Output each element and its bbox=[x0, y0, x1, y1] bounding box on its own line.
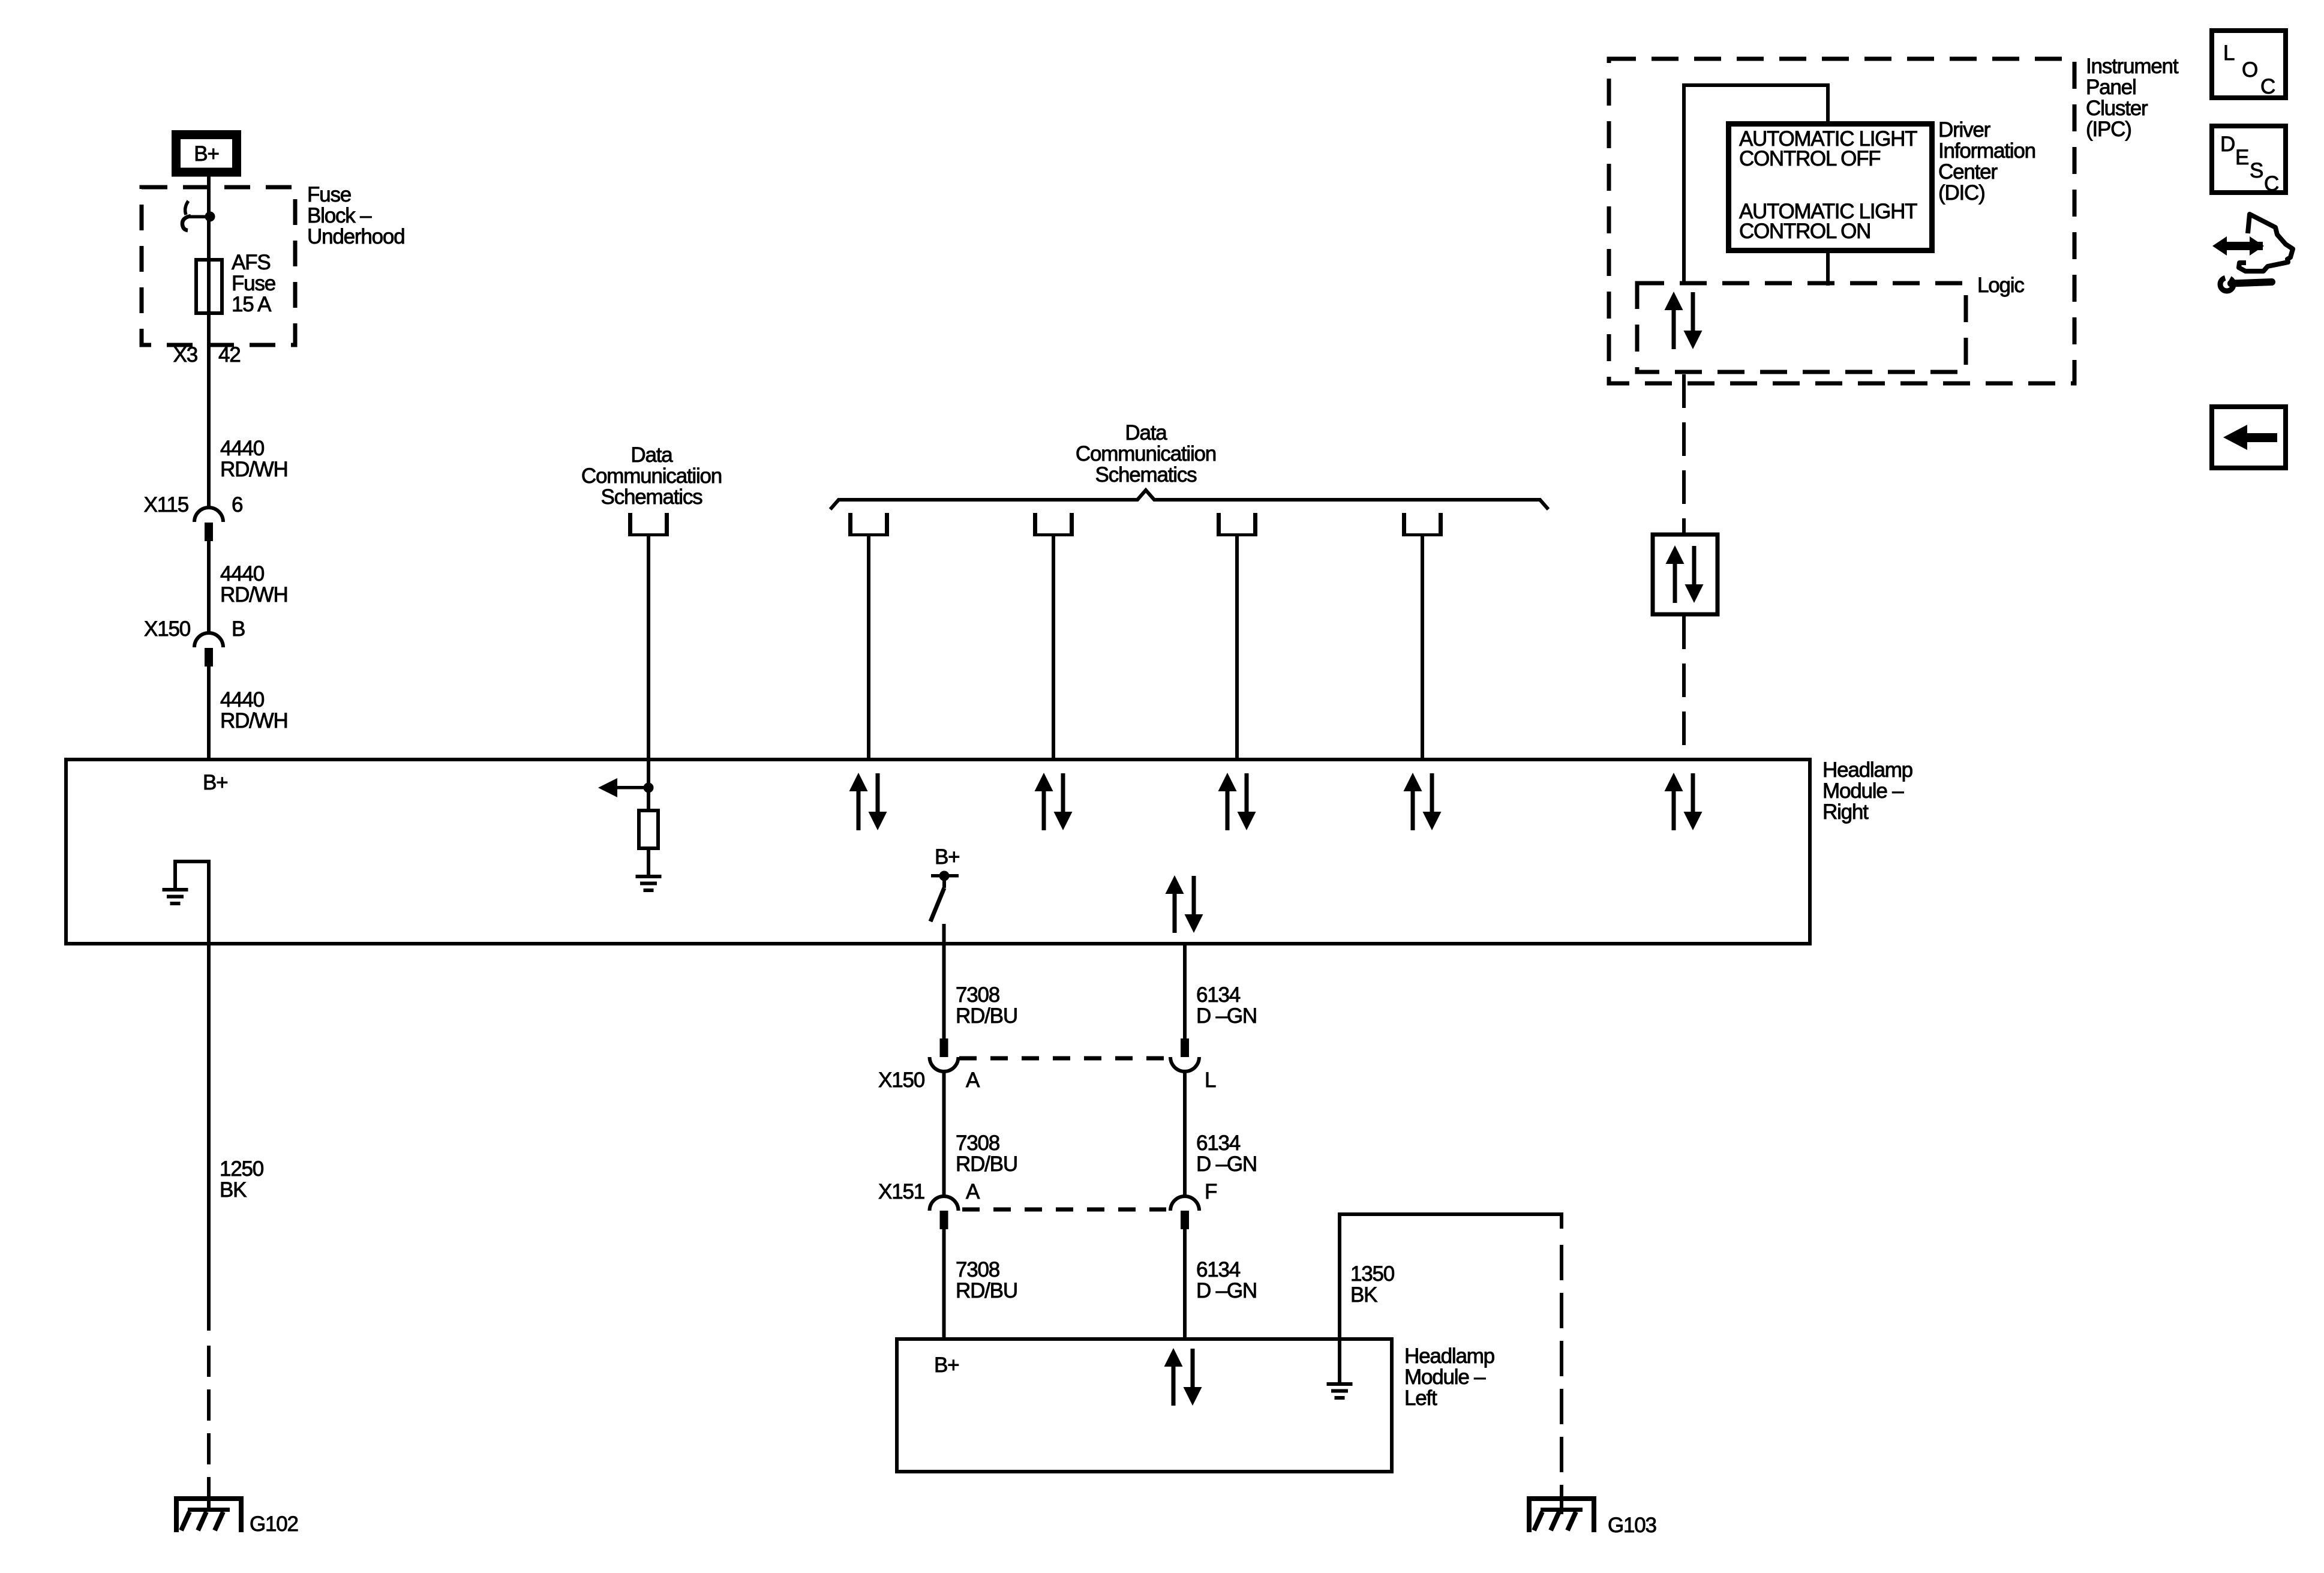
svg-text:G103: G103 bbox=[1608, 1514, 1656, 1537]
svg-text:Communicatiion: Communicatiion bbox=[1076, 442, 1216, 466]
svg-text:C: C bbox=[2260, 75, 2275, 98]
svg-text:L: L bbox=[1205, 1068, 1216, 1092]
icon box LOC bbox=[2212, 31, 2286, 98]
wire 6134 segment 3 bbox=[1183, 1229, 1187, 1341]
wire 4440 segment 2 bbox=[207, 541, 211, 634]
serial data arrows pin 2 bbox=[1035, 773, 1073, 830]
svg-text:Communicatiion: Communicatiion bbox=[581, 464, 722, 488]
wire 1250 BK dashed continuation bbox=[207, 1346, 211, 1514]
svg-text:Fuse: Fuse bbox=[232, 272, 275, 295]
svg-text:X150: X150 bbox=[144, 617, 191, 641]
icon box DESC bbox=[2212, 126, 2286, 196]
module Instrument Panel Cluster dashed box bbox=[1609, 59, 2074, 383]
svg-text:S: S bbox=[2250, 159, 2263, 182]
wire 7308 segment 3 bbox=[942, 1229, 946, 1341]
svg-text:RD/WH: RD/WH bbox=[220, 458, 288, 481]
svg-text:X3: X3 bbox=[173, 343, 197, 367]
wire 6134 segment 2 bbox=[1183, 1071, 1187, 1196]
off-page connector bracket 2 bbox=[1033, 513, 1074, 536]
serial data arrows in link box bbox=[1666, 545, 1704, 603]
wire B+ feed (4440 circuit through fuse) bbox=[207, 176, 211, 508]
wire data bus 4 bbox=[1421, 536, 1424, 761]
serial data arrows in logic box bbox=[1665, 292, 1703, 349]
module Headlamp Module - Right box bbox=[66, 760, 1810, 944]
connector X150 pin A bbox=[930, 1038, 959, 1071]
svg-text:4440: 4440 bbox=[220, 688, 265, 712]
serial data arrows pin 4 bbox=[1404, 773, 1442, 830]
display DIC box bbox=[1729, 124, 1932, 251]
svg-text:7308: 7308 bbox=[956, 983, 999, 1007]
wire data bus 3 bbox=[1235, 536, 1239, 761]
serial data arrows pin 1 bbox=[849, 773, 887, 830]
svg-text:15 A: 15 A bbox=[232, 293, 272, 316]
connector X151 pin A bbox=[930, 1196, 959, 1229]
svg-text:Module –: Module – bbox=[1822, 779, 1904, 803]
connector X151 pin F bbox=[1170, 1196, 1199, 1229]
resistor element inside module bbox=[639, 810, 658, 848]
svg-text:Information: Information bbox=[1938, 139, 2035, 163]
svg-text:A: A bbox=[966, 1068, 980, 1092]
svg-text:RD/BU: RD/BU bbox=[956, 1279, 1017, 1302]
ground symbol below resistor bbox=[636, 875, 662, 892]
svg-text:Cluster: Cluster bbox=[2086, 97, 2148, 120]
power symbol B+ box bbox=[176, 135, 237, 173]
wire junction to resistor bbox=[647, 788, 650, 810]
svg-text:C: C bbox=[2264, 172, 2278, 196]
junction node bbox=[644, 783, 654, 793]
off-page connector bracket 1 bbox=[848, 513, 889, 536]
svg-text:Fuse: Fuse bbox=[307, 183, 351, 206]
svg-text:X115: X115 bbox=[144, 493, 188, 517]
svg-text:A: A bbox=[966, 1180, 980, 1203]
svg-text:Underhood: Underhood bbox=[307, 225, 404, 248]
svg-text:Data: Data bbox=[630, 443, 673, 467]
off-page connector bracket 4 bbox=[1402, 513, 1443, 536]
fuse block underhood dashed outline bbox=[142, 187, 295, 345]
serial data arrows pin 3 bbox=[1218, 773, 1256, 830]
svg-text:Headlamp: Headlamp bbox=[1404, 1344, 1494, 1368]
wire 7308 segment 1 bbox=[942, 924, 946, 1040]
ground G102 symbol bbox=[174, 1496, 244, 1532]
off-page connector bracket 3 bbox=[1217, 513, 1257, 536]
icon wrench bbox=[2220, 271, 2272, 291]
wire resistor to ground bbox=[647, 848, 650, 875]
wire 6134 segment 1 bbox=[1183, 944, 1187, 1040]
svg-text:BK: BK bbox=[220, 1178, 247, 1202]
svg-text:6134: 6134 bbox=[1196, 1258, 1241, 1281]
connector X150 inline bbox=[194, 633, 223, 667]
svg-text:D –GN: D –GN bbox=[1196, 1279, 1257, 1302]
svg-text:D –GN: D –GN bbox=[1196, 1004, 1257, 1028]
svg-text:Panel: Panel bbox=[2086, 76, 2136, 99]
connector X150 dashed tie line bbox=[959, 1056, 1169, 1061]
wire 7308 segment 2 bbox=[942, 1071, 946, 1196]
node B+ internal supply with switch bbox=[930, 845, 959, 921]
serial data arrows pin lower bbox=[1166, 875, 1203, 933]
svg-text:RD/BU: RD/BU bbox=[956, 1004, 1017, 1028]
svg-text:Logic: Logic bbox=[1977, 274, 2024, 297]
ground symbol inside module right bbox=[163, 888, 188, 905]
svg-text:X150: X150 bbox=[878, 1068, 925, 1092]
svg-text:Schematics: Schematics bbox=[601, 485, 703, 509]
arrow to left inside module bbox=[598, 778, 648, 797]
svg-text:F: F bbox=[1205, 1180, 1217, 1203]
svg-text:AFS: AFS bbox=[232, 251, 270, 274]
svg-text:O: O bbox=[2242, 58, 2257, 82]
svg-text:1350: 1350 bbox=[1350, 1262, 1395, 1286]
connector X150 pin L bbox=[1170, 1038, 1199, 1071]
svg-text:Block –: Block – bbox=[307, 204, 372, 227]
svg-text:CONTROL OFF: CONTROL OFF bbox=[1739, 147, 1880, 170]
wire IPC internal loop bbox=[1684, 85, 1828, 283]
svg-text:BK: BK bbox=[1350, 1283, 1377, 1307]
svg-text:Schematics: Schematics bbox=[1095, 463, 1197, 487]
connector X115 inline bbox=[194, 508, 223, 541]
serial data arrows inside module left bbox=[1164, 1348, 1202, 1406]
wire DIC to logic bbox=[1826, 253, 1830, 286]
svg-text:(DIC): (DIC) bbox=[1938, 181, 1985, 205]
serial data link box bbox=[1653, 535, 1718, 614]
fuse clip terminal bbox=[182, 201, 210, 230]
svg-text:X151: X151 bbox=[878, 1180, 924, 1203]
icon box back arrow bbox=[2212, 407, 2286, 468]
svg-text:7308: 7308 bbox=[956, 1131, 999, 1155]
svg-text:B: B bbox=[232, 617, 245, 641]
svg-text:4440: 4440 bbox=[220, 562, 265, 586]
svg-text:G102: G102 bbox=[250, 1512, 298, 1536]
svg-text:Instrument: Instrument bbox=[2086, 55, 2179, 78]
module Headlamp Module - Left box bbox=[897, 1339, 1392, 1472]
wire data bus 2 bbox=[1052, 536, 1055, 761]
wire IPC serial dashed lower bbox=[1682, 616, 1686, 758]
serial data arrows pin 5 bbox=[1665, 773, 1703, 830]
svg-text:Center: Center bbox=[1938, 160, 1998, 184]
svg-text:1250: 1250 bbox=[220, 1157, 264, 1181]
icon harness double arrow bbox=[2212, 236, 2264, 256]
internal ground wire step inside module bbox=[175, 861, 209, 944]
svg-text:6: 6 bbox=[232, 493, 242, 517]
wire 1350 dashed continuation bbox=[1560, 1212, 1563, 1229]
svg-text:RD/BU: RD/BU bbox=[956, 1152, 1017, 1176]
svg-text:B+: B+ bbox=[934, 1353, 959, 1377]
svg-text:4440: 4440 bbox=[220, 437, 265, 460]
svg-text:B+: B+ bbox=[203, 771, 227, 794]
wire 1250 BK ground lead solid bbox=[207, 944, 211, 1331]
wire IPC serial dashed upper bbox=[1682, 374, 1686, 533]
svg-text:B+: B+ bbox=[935, 845, 959, 869]
svg-text:Driver: Driver bbox=[1938, 118, 1991, 142]
junction node on B+ wire bbox=[205, 212, 215, 222]
svg-text:L: L bbox=[2223, 41, 2235, 65]
svg-text:CONTROL ON: CONTROL ON bbox=[1739, 220, 1870, 243]
svg-text:7308: 7308 bbox=[956, 1258, 999, 1281]
ground G103 symbol bbox=[1527, 1496, 1596, 1532]
wire data bus 1 bbox=[867, 536, 870, 761]
icon harness outline bbox=[2239, 214, 2293, 271]
ground symbol inside module left bbox=[1327, 1382, 1353, 1400]
svg-text:E: E bbox=[2235, 146, 2248, 169]
svg-text:Headlamp: Headlamp bbox=[1822, 758, 1912, 782]
svg-text:6134: 6134 bbox=[1196, 1131, 1241, 1155]
svg-text:B+: B+ bbox=[194, 142, 218, 166]
wire serial data left drop bbox=[647, 536, 650, 788]
svg-text:RD/WH: RD/WH bbox=[220, 709, 288, 733]
svg-text:RD/WH: RD/WH bbox=[220, 583, 288, 607]
svg-text:(IPC): (IPC) bbox=[2086, 118, 2131, 141]
svg-text:42: 42 bbox=[218, 343, 241, 367]
brace over data bus wires bbox=[830, 490, 1548, 509]
svg-text:Data: Data bbox=[1125, 421, 1167, 445]
off-page connector bracket (data schematics left) bbox=[628, 513, 669, 536]
svg-text:Left: Left bbox=[1404, 1386, 1437, 1410]
svg-text:6134: 6134 bbox=[1196, 983, 1241, 1007]
wire 4440 segment 3 bbox=[207, 667, 211, 761]
logic dashed box bbox=[1637, 283, 1966, 372]
fuse AFS 15A bbox=[196, 260, 222, 313]
svg-text:D: D bbox=[2220, 133, 2235, 156]
wire 1350 BK ground lead bbox=[1340, 1214, 1562, 1382]
svg-text:D –GN: D –GN bbox=[1196, 1152, 1257, 1176]
svg-text:Module –: Module – bbox=[1404, 1365, 1486, 1389]
connector X151 dashed tie line bbox=[962, 1208, 1166, 1212]
svg-text:Right: Right bbox=[1822, 800, 1869, 824]
